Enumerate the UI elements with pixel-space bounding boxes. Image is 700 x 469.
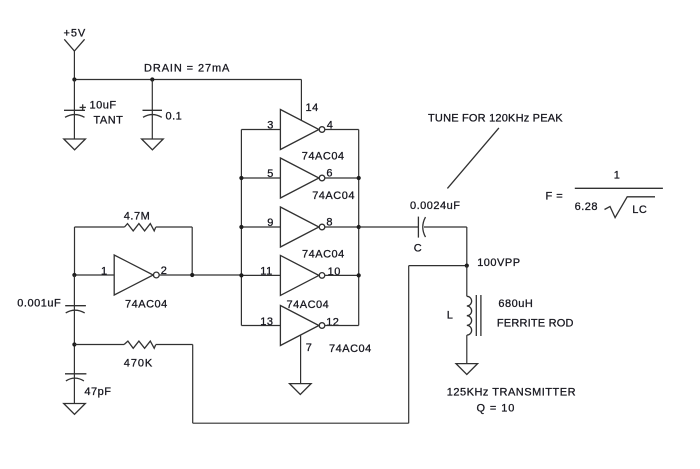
inverter U3 third 74AC04 (267, 207, 344, 261)
resistor R2 470K (124, 341, 156, 369)
wire: feedback loop top left segment (75, 226, 125, 228)
wire: C5 to corner (424, 226, 467, 228)
node: feedback right junction (190, 273, 194, 277)
wire: pin 7 ground drop (300, 335, 302, 384)
wire: corner down to tank node (466, 227, 468, 266)
wire: output pin 6 (325, 177, 359, 179)
svg-text:3: 3 (267, 120, 274, 132)
svg-text:74AC04: 74AC04 (312, 190, 355, 202)
wire: pin 14 supply drop (300, 80, 302, 121)
svg-text:6.28: 6.28 (575, 201, 598, 213)
capacitor C3 0.001uF (17, 298, 86, 313)
node: right bus dot pin 10 (357, 273, 361, 277)
inverter U2 second 74AC04 (267, 158, 355, 202)
svg-text:10: 10 (328, 266, 341, 278)
svg-text:TUNE FOR 120KHz PEAK: TUNE FOR 120KHz PEAK (428, 112, 563, 124)
wire: rail down through C1 to ground (73, 80, 75, 140)
wire: supply rail (DRAIN) (74, 79, 301, 81)
capacitor C5 0.0024uF (410, 200, 460, 255)
svg-text:74AC04: 74AC04 (329, 343, 372, 355)
wire: +5V stem to supply rail (73, 51, 75, 80)
wire: R2 to right corner (156, 344, 193, 346)
wire: tank node down to L1 (466, 266, 468, 297)
op-amp U1A oscillator inverter 74AC04 (101, 255, 168, 311)
svg-text:TANT: TANT (94, 115, 124, 127)
inverter U1 first 74AC04 (267, 110, 344, 163)
resistor R1 4.7M (124, 211, 156, 231)
svg-text:10uF: 10uF (90, 100, 117, 112)
wire: input pin 9 (241, 226, 280, 228)
node: bus dot pin 5 (239, 176, 243, 180)
inverter U4 fourth 74AC04 (260, 255, 341, 311)
svg-text:12: 12 (326, 317, 339, 329)
node: bus dot pin 11 (239, 273, 243, 277)
inductor L1 680uH (447, 295, 574, 336)
wire: bottom rail (193, 422, 409, 424)
svg-text:74AC04: 74AC04 (287, 299, 330, 311)
svg-text:1: 1 (101, 266, 108, 278)
node: bus dot pin 9 (239, 225, 243, 229)
svg-text:7: 7 (306, 342, 313, 354)
wire: feedback loop right vertical (191, 227, 193, 275)
svg-text:+5V: +5V (64, 28, 87, 40)
capacitor C2 0.1 (143, 110, 183, 122)
svg-text:470K: 470K (124, 358, 153, 370)
wire: L1 to ground (466, 335, 468, 364)
wire: input pin 5 (241, 177, 280, 179)
inverter U5 fifth 74AC04 (260, 306, 339, 346)
wire: output pin 10 (325, 274, 359, 276)
svg-text:125KHz TRANSMITTER: 125KHz TRANSMITTER (447, 386, 576, 398)
node: right bus dot pin 6 (357, 176, 361, 180)
wire: output pin 8 (325, 226, 359, 228)
svg-text:0.0024uF: 0.0024uF (410, 200, 460, 212)
svg-text:L: L (447, 310, 454, 322)
ground under L1 (456, 364, 478, 375)
ground at pin 7 (290, 384, 312, 395)
wire: rail down through C2 to ground (151, 80, 153, 140)
svg-text:13: 13 (260, 316, 273, 328)
ground under C2 (142, 139, 164, 150)
wire: input pin 3 (241, 129, 280, 131)
node: feedback left junction (72, 273, 76, 277)
svg-text:Q = 10: Q = 10 (477, 402, 516, 414)
svg-text:0.1: 0.1 (166, 111, 183, 123)
svg-text:74AC04: 74AC04 (302, 151, 345, 163)
wire: oscillator output to inverter bank (159, 274, 241, 276)
svg-text:C: C (414, 243, 422, 255)
svg-text:F =: F = (546, 191, 564, 203)
wire: tank node left arm (409, 265, 467, 267)
wire: bottom rail up to tank node (408, 266, 410, 424)
wire: right vertical down to bottom rail (192, 345, 194, 424)
wire: left column down through C3 (73, 275, 75, 404)
node: 100VPP tank junction (465, 264, 469, 268)
node: supply junction at C1 (72, 77, 76, 81)
ground under C1 (64, 139, 86, 150)
svg-text:1: 1 (614, 169, 621, 181)
svg-text:DRAIN = 27mA: DRAIN = 27mA (144, 63, 230, 75)
wire: annotation pointer line (447, 128, 499, 188)
wire: bank output to C5 (359, 226, 419, 228)
capacitor C4 47pF (65, 374, 111, 398)
svg-text:74AC04: 74AC04 (302, 249, 345, 261)
svg-text:4.7M: 4.7M (124, 211, 150, 223)
wire: to R2 (74, 344, 124, 346)
svg-text:680uH: 680uH (498, 298, 533, 310)
wire: input pin 13 (241, 325, 280, 327)
svg-text:LC: LC (632, 204, 647, 216)
svg-text:14: 14 (306, 102, 319, 114)
node: right bus dot pin 8 (357, 225, 361, 229)
formula F = 1/(6.28 sqrt(LC)) (546, 169, 663, 217)
wire: output pin 4 (325, 129, 359, 131)
svg-text:11: 11 (260, 265, 272, 277)
wire: input pin 11 (241, 274, 280, 276)
capacitor C1 10uF TANT (64, 100, 123, 127)
node: supply junction at C2 (150, 77, 154, 81)
power symbol +5V (64, 28, 87, 52)
svg-text:FERRITE ROD: FERRITE ROD (497, 318, 574, 330)
node: junction at 470K (72, 342, 76, 346)
svg-text:74AC04: 74AC04 (125, 299, 168, 311)
svg-text:0.001uF: 0.001uF (17, 298, 61, 310)
wire: feedback loop top right segment (156, 226, 193, 228)
svg-text:5: 5 (267, 168, 274, 180)
wire: feedback loop left vertical (74, 227, 76, 275)
wire: left input bus of inverter bank (240, 130, 242, 326)
wire: oscillator input wire (74, 274, 114, 276)
svg-text:100VPP: 100VPP (477, 257, 520, 269)
wire: output pin 12 (325, 325, 359, 327)
svg-text:9: 9 (267, 217, 274, 229)
ground under C4 (64, 404, 86, 415)
svg-text:47pF: 47pF (84, 386, 111, 398)
wire: right output bus of inverter bank (358, 130, 360, 326)
